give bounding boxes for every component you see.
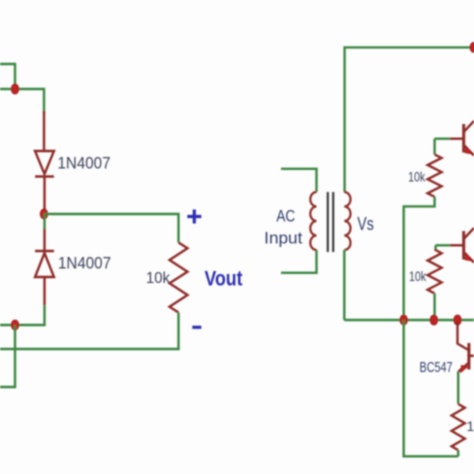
wire top-left upper stub — [0, 64, 15, 89]
wire resistor R2 bottom to rail — [404, 197, 435, 320]
node junction J2 — [40, 209, 48, 219]
svg-text:10k: 10k — [467, 418, 474, 434]
resistor R1 10k zigzag — [170, 243, 188, 313]
svg-text:Input: Input — [264, 229, 302, 248]
node junction at right edge top — [470, 42, 474, 52]
node junction J3 — [11, 320, 19, 330]
wire top rail right side — [345, 47, 474, 192]
diode D1 1N4007 (pointing down) — [35, 111, 54, 214]
transistor Q3 emitter arrow — [461, 365, 468, 372]
transistor Q1 — [450, 121, 474, 156]
transformer T1 primary winding — [310, 192, 316, 250]
diode D2 1N4007 (pointing up) — [35, 228, 54, 305]
wire Q2 base to resistor R3 — [434, 245, 436, 249]
wire transformer primary bottom lead — [281, 250, 317, 273]
transistor Q1 emitter arrow — [465, 146, 472, 154]
svg-text:Vout: Vout — [205, 268, 243, 291]
transistor Q2 emitter arrow — [465, 253, 472, 261]
wire bottom rail — [344, 319, 474, 321]
wire transformer primary top lead — [281, 169, 317, 192]
node junction J5 — [430, 315, 438, 325]
resistor R3 10k zigzag — [428, 250, 442, 294]
transformer T1 secondary winding — [344, 192, 350, 250]
resistor R2 10k zigzag — [428, 154, 442, 196]
transistor Q1 base wire — [435, 137, 450, 139]
wire D2 top lead from node J2 — [43, 214, 45, 229]
svg-text:10k: 10k — [146, 270, 171, 287]
node junction J1 — [11, 84, 19, 94]
wire resistor R4 bottom lead — [457, 450, 459, 456]
wire Q3 emitter to resistor R4 — [457, 372, 459, 405]
transistor Q2 base wire — [436, 244, 450, 246]
wire resistor R1 bottom to left edge — [0, 313, 179, 350]
wire lower-left horizontal into node J3 — [0, 305, 45, 325]
transformer T1 core — [328, 192, 333, 252]
svg-text:Vs: Vs — [357, 214, 374, 234]
wire output top to resistor R1 — [44, 214, 179, 243]
svg-text:10k: 10k — [409, 268, 427, 284]
resistor R4 zigzag — [452, 404, 465, 450]
wire top-left into node — [0, 89, 44, 113]
svg-text:1N4007: 1N4007 — [58, 254, 111, 273]
wire transformer secondary bottom to rail — [343, 250, 345, 320]
node junction J4 — [400, 315, 408, 325]
svg-text:10k: 10k — [408, 169, 426, 185]
wire resistor R3 bottom to rail node J5 — [433, 293, 435, 320]
wire left branch down to emitter resistor R4 — [404, 320, 459, 456]
transistor Q3 BC547 — [458, 321, 474, 372]
label plus sign — [187, 210, 201, 224]
label minus sign — [192, 326, 201, 329]
wire from node J3 down to left edge — [0, 325, 15, 387]
svg-text:1N4007: 1N4007 — [58, 154, 111, 173]
svg-text:AC: AC — [276, 207, 295, 226]
transistor Q2 — [450, 228, 474, 263]
svg-text:BC547: BC547 — [420, 359, 453, 376]
wire Q1 base to resistor R2 — [433, 139, 435, 155]
node junction J6 — [454, 315, 462, 325]
